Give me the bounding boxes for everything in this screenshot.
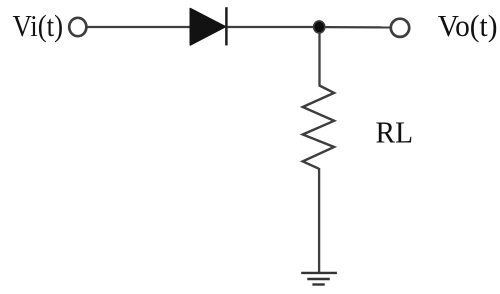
svg-text:Vo(t): Vo(t) bbox=[438, 8, 498, 43]
wire diode to node bbox=[228, 26, 315, 28]
svg-text:Vi(t): Vi(t) bbox=[13, 8, 64, 43]
svg-text:RL: RL bbox=[376, 115, 414, 150]
diode bbox=[190, 7, 226, 45]
terminal output bbox=[391, 19, 409, 37]
wire resistor to ground bbox=[318, 168, 320, 272]
node junction bbox=[314, 21, 325, 33]
wire input to diode bbox=[87, 26, 190, 28]
wire node down to resistor bbox=[318, 33, 320, 87]
wire node to output bbox=[325, 26, 390, 29]
ground bbox=[301, 273, 337, 285]
resistor RL zigzag bbox=[303, 86, 334, 169]
terminal input bbox=[69, 18, 86, 36]
